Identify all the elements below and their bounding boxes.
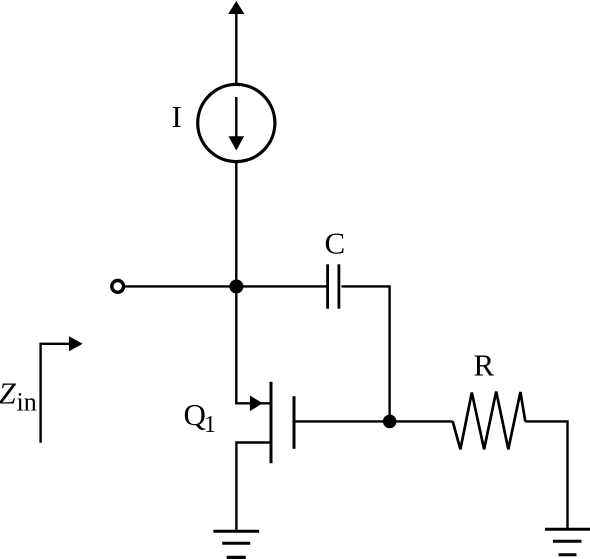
svg-text:I: I xyxy=(172,99,182,134)
wire resistor to ground xyxy=(525,421,567,529)
svg-text:Q: Q xyxy=(184,397,206,432)
wire source of Q1 xyxy=(236,443,270,532)
wire supply lead xyxy=(235,12,237,84)
svg-text:C: C xyxy=(325,226,346,261)
supply arrowhead (upward) xyxy=(228,1,244,14)
node input junction xyxy=(229,280,243,294)
svg-text:1: 1 xyxy=(204,412,216,438)
current source I (circle) xyxy=(198,84,275,161)
capacitor C xyxy=(326,264,329,308)
ground right xyxy=(545,528,590,531)
wire gate of Q1 xyxy=(236,287,270,403)
Zin looking-in arrow xyxy=(41,344,69,443)
svg-text:Z: Z xyxy=(0,376,17,411)
ground left xyxy=(213,530,259,533)
wire drain tap xyxy=(296,420,453,422)
wire input rail to capacitor xyxy=(125,285,327,287)
gate arrowhead xyxy=(250,396,263,412)
svg-text:in: in xyxy=(17,388,37,417)
wire current source to input node xyxy=(235,163,237,288)
wire capacitor to drain node xyxy=(342,286,390,421)
current source internal arrow xyxy=(235,97,237,138)
transistor Q1 gate bar xyxy=(270,382,273,464)
input terminal (open circle) xyxy=(112,281,124,293)
svg-text:R: R xyxy=(474,348,495,383)
node drain junction xyxy=(383,415,397,429)
resistor R xyxy=(453,392,526,450)
transistor Q1 channel bar xyxy=(293,396,296,449)
